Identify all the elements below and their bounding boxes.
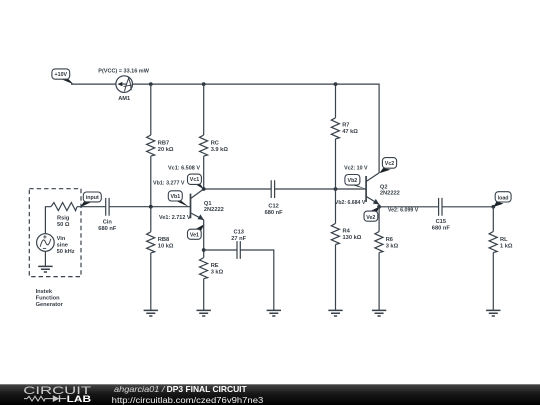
svg-text:2N2222: 2N2222 (204, 207, 224, 213)
svg-text:Ve1: Ve1 (190, 232, 199, 238)
wire RE to ground (203, 279, 205, 311)
junction input/RB7/RB8 (149, 205, 153, 209)
wire C13 right to ground (240, 250, 273, 310)
resistor Rsig (51, 203, 77, 229)
wire Rsig to Cin (77, 206, 106, 208)
svg-text:P(VCC) = 33.16 mW: P(VCC) = 33.16 mW (98, 68, 149, 74)
junction rail/RB7 (149, 82, 153, 86)
svg-text:3 kΩ: 3 kΩ (211, 269, 224, 275)
wire Vin top to Rsig (45, 207, 51, 234)
voltage source Vin (37, 234, 75, 255)
ground Vin (38, 266, 52, 272)
Vb1 flag (168, 191, 189, 207)
junction emitter/R6/wire (377, 205, 381, 209)
svg-text:Vc2: Vc2 (385, 161, 394, 167)
svg-text:AM1: AM1 (118, 96, 130, 102)
wire R7 bottom (335, 139, 337, 189)
junction emitter/RE/C13 (202, 248, 206, 252)
input flag (80, 192, 101, 207)
svg-text:Vc1: 6.508 V: Vc1: 6.508 V (168, 165, 200, 171)
capacitor C12 (265, 180, 284, 216)
svg-text:680 nF: 680 nF (432, 225, 451, 231)
svg-text:Ve2: 6.099 V: Ve2: 6.099 V (388, 207, 419, 213)
svg-text:C15: C15 (436, 219, 446, 225)
svg-text:2N2222: 2N2222 (380, 191, 400, 197)
svg-text:R6: R6 (386, 237, 393, 243)
svg-text:Vb1: Vb1 (170, 194, 180, 200)
svg-text:+10V: +10V (55, 72, 68, 78)
load flag (493, 192, 511, 207)
svg-text:Q2: Q2 (380, 184, 388, 190)
Ve2 flag (364, 207, 379, 221)
svg-text:3 kΩ: 3 kΩ (386, 243, 399, 249)
svg-text:Cin: Cin (103, 220, 113, 226)
junction rail/R7 (334, 82, 338, 86)
svg-text:sine: sine (57, 242, 68, 248)
wire Q2 emitter node (378, 204, 380, 207)
resistor RE (200, 258, 224, 279)
wire Q1 emitter down (203, 220, 205, 258)
wire RL top (492, 207, 494, 232)
junction load/RL (491, 205, 495, 209)
Ve1 flag (188, 224, 205, 239)
wire C13 left (204, 249, 237, 251)
svg-text:Vb2: 6.684 V: Vb2: 6.684 V (335, 200, 366, 206)
svg-text:http://circuitlab.com/czed76v9: http://circuitlab.com/czed76v9h7ne3 (112, 395, 264, 405)
wire emitter to C15 (379, 206, 439, 208)
svg-text:ahgarcia01 /DP3 FINAL CIRCUIT: ahgarcia01 /DP3 FINAL CIRCUIT (114, 385, 247, 394)
svg-text:Ve2: Ve2 (366, 215, 375, 221)
svg-text:C12: C12 (268, 203, 278, 209)
svg-text:RB8: RB8 (158, 237, 169, 243)
svg-text:Vc1: Vc1 (190, 177, 199, 183)
resistor RB8 (147, 232, 174, 253)
svg-text:50 kHz: 50 kHz (57, 249, 75, 255)
resistor R7 (331, 118, 358, 139)
wire RB7 to input line (150, 156, 152, 207)
svg-text:C13: C13 (233, 230, 243, 236)
svg-text:Function: Function (36, 295, 61, 301)
svg-text:RB7: RB7 (158, 140, 169, 146)
junction R7/R4/base (334, 187, 338, 191)
svg-text:50 Ω: 50 Ω (57, 222, 70, 228)
Instek label (36, 289, 64, 308)
wire R4 to ground (335, 245, 337, 311)
CircuitLab logo (23, 385, 91, 404)
resistor RL (489, 232, 513, 253)
resistor R6 (375, 232, 399, 253)
junction collector node (202, 187, 206, 191)
wire R4 top (335, 189, 337, 223)
wire C12 to R7/R4 node (275, 188, 366, 190)
svg-text:LAB: LAB (67, 394, 92, 404)
svg-text:R7: R7 (342, 123, 349, 129)
svg-text:RE: RE (211, 263, 219, 269)
ground RB8 (144, 310, 158, 316)
ground RL (486, 310, 500, 316)
svg-text:3.9 kΩ: 3.9 kΩ (211, 147, 229, 153)
svg-text:Vb1: 3.277 V: Vb1: 3.277 V (153, 180, 185, 186)
capacitor C13 (231, 230, 246, 259)
svg-text:47 kΩ: 47 kΩ (342, 129, 358, 135)
wire R6 top (378, 207, 380, 232)
ground R6 (372, 310, 386, 316)
svg-text:RC: RC (211, 140, 219, 146)
svg-text:680 nF: 680 nF (265, 210, 284, 216)
footer bar (0, 384, 540, 405)
resistor RC (200, 135, 229, 156)
wire +10V to ammeter (71, 83, 116, 85)
svg-text:input: input (86, 195, 99, 201)
Vc1 flag (188, 174, 204, 189)
svg-text:load: load (498, 195, 509, 201)
svg-text:20 kΩ: 20 kΩ (158, 147, 174, 153)
svg-text:130 kΩ: 130 kΩ (343, 235, 362, 241)
wire RB7 top (150, 84, 152, 135)
+10V flag (52, 69, 74, 84)
capacitor Cin (98, 198, 117, 232)
wire RC to collector node (203, 156, 205, 189)
transistor Q2 (366, 173, 400, 205)
wire R7 top (335, 84, 337, 118)
svg-text:Ve1: 2.712 V: Ve1: 2.712 V (159, 215, 191, 221)
svg-text:Vin: Vin (57, 236, 66, 242)
svg-text:1 kΩ: 1 kΩ (500, 243, 513, 249)
svg-text:Vb2: Vb2 (348, 178, 358, 184)
ammeter AM1 (98, 68, 149, 102)
svg-text:Vc2: 10 V: Vc2: 10 V (344, 165, 368, 171)
capacitor C15 (432, 198, 451, 231)
Vc2 flag (379, 158, 396, 174)
junction rail/RC (202, 82, 206, 86)
ground R4 (328, 310, 342, 316)
wire RC top (203, 84, 205, 135)
wire Vin bottom (44, 251, 46, 266)
resistor RB7 (147, 135, 174, 156)
svg-text:27 nF: 27 nF (231, 236, 246, 242)
wire RB8 to ground (150, 253, 152, 311)
wire Cin to Q1 base (109, 206, 190, 208)
wire R6 to ground (378, 253, 380, 311)
svg-text:Instek: Instek (36, 289, 53, 295)
ground RE (197, 310, 211, 316)
wire collector to C12 (204, 188, 272, 190)
svg-text:R4: R4 (343, 229, 351, 235)
Vb2 flag (345, 175, 366, 190)
transistor Q1 (191, 189, 224, 220)
svg-text:680 nF: 680 nF (98, 226, 117, 232)
Instek dashed box (29, 189, 81, 277)
svg-text:Rsig: Rsig (57, 216, 70, 222)
wire C15 to load (442, 206, 493, 208)
svg-text:Generator: Generator (36, 302, 64, 308)
ground C13 (267, 310, 281, 316)
wire RL to ground (492, 253, 494, 311)
svg-text:RL: RL (500, 237, 508, 243)
resistor R4 (331, 223, 361, 244)
wire RB8 top (150, 207, 152, 232)
svg-text:10 kΩ: 10 kΩ (158, 244, 174, 250)
top rail wire (133, 84, 380, 173)
